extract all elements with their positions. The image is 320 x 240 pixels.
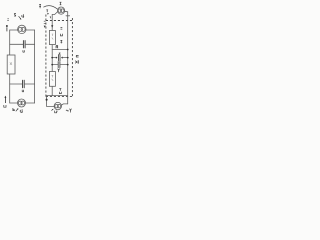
label C2 value (below plates): [22, 90, 24, 92]
arrowhead down dashed edge: [44, 26, 46, 28]
label u1 column mark c: [60, 40, 62, 43]
arrow to source Q1: [19, 16, 22, 19]
current source Q4 (interlocking circles): [54, 102, 61, 109]
wire top link to source Q3: [52, 12, 58, 15]
tick on right rail: [66, 15, 70, 17]
label u (bottom left): [4, 105, 6, 107]
wire bottom (right circuit): [47, 95, 68, 97]
current source Q1 (top, interlocking circles): [18, 25, 26, 33]
junction dot rung3/left: [51, 64, 53, 66]
label R1 value (inside box): [10, 62, 12, 64]
current source Q2 (bottom, interlocking circles): [18, 99, 26, 107]
label C1 value (below plates): [23, 50, 25, 52]
wire bottom loop right link: [61, 104, 67, 105]
label i1 at dashed edge: [44, 21, 46, 23]
wire bottom left segment: [10, 102, 18, 104]
resistor R1 (left circuit box): [7, 55, 15, 74]
wire top left segment: [10, 29, 18, 31]
wire rung 2 right: [62, 57, 68, 59]
arrow left (rung 2 plates): [61, 57, 63, 59]
wire rung B left: [10, 83, 23, 85]
wire left rail (right circuit, mid): [51, 45, 53, 72]
node dot + stem (left edge): [6, 25, 8, 31]
wire rung 1: [52, 49, 67, 51]
wire rung 3 right: [60, 64, 67, 66]
label tilde (bottom right): [66, 109, 69, 112]
label u2 above bottom wire: [59, 89, 61, 94]
capacitor C3 plates (rung 2): [59, 55, 61, 61]
wire bottom right segment: [26, 102, 35, 104]
arrow up (bottom left): [4, 96, 6, 103]
wire from Q3 to right rail: [65, 10, 68, 13]
label i1 (top far left): [39, 4, 41, 8]
current source Q3 (interlocking circles): [58, 7, 65, 14]
junction dot rung2/right: [67, 57, 69, 59]
resistor R3 (lower box, right circuit): [49, 72, 55, 87]
label above Q3: [60, 2, 62, 5]
arrow at Q4 lower left: [52, 109, 54, 111]
wire bottom loop left riser: [46, 96, 48, 107]
label Cb outside right lower: [75, 60, 78, 63]
label R2 value (inside upper box): [52, 34, 53, 39]
resistor R2 (upper box, right circuit): [49, 31, 55, 45]
arrow to source Q2: [16, 108, 19, 111]
capacitor C4 plates (rung 3): [58, 62, 60, 68]
wire top right segment: [26, 29, 35, 31]
dashed box (transducer): [46, 15, 73, 97]
label below C4: [58, 69, 60, 73]
label iq (top left source label): [14, 14, 16, 16]
junction dot rung1/right: [67, 49, 69, 51]
label Cb outside right upper: [76, 55, 79, 57]
label under Q2 left: [13, 108, 15, 111]
wire rung B right: [24, 83, 34, 85]
wire right rail (left circuit): [34, 30, 36, 103]
capacitor C1 plates: [23, 41, 25, 48]
wire rung 3 left: [52, 64, 58, 66]
arrowhead under arc: [47, 13, 49, 15]
arrowhead into R2: [51, 25, 53, 28]
wire left rail (right circuit, top): [51, 15, 53, 31]
label u1 column mark a: [61, 27, 63, 29]
label i1 subscript near rail: [50, 17, 51, 18]
label under Q4 left: [55, 111, 58, 113]
label phi (top, right of arrow): [22, 14, 24, 18]
arrow right (rung 2 plates): [56, 57, 58, 59]
wire left rail lower (left circuit): [9, 74, 11, 103]
wire left rail upper (left circuit): [9, 30, 11, 55]
junction dot rung2/left: [51, 57, 53, 59]
label above C3: [59, 53, 61, 55]
label under arc: [46, 10, 48, 12]
label under Q2 right: [20, 109, 22, 113]
capacitor C2 plates: [23, 80, 25, 87]
wire rung A left: [10, 43, 24, 45]
wire rung 2 left: [52, 57, 56, 59]
junction dot rung3/right: [67, 64, 69, 66]
annotation arc to Q3: [43, 6, 57, 10]
junction dot bottom loop: [46, 99, 48, 101]
wire rung A right: [25, 43, 34, 45]
label u1 column mark b: [61, 34, 63, 36]
label y (bottom right): [70, 109, 72, 113]
wire right rail (right circuit): [67, 12, 69, 104]
label R3 value (inside lower box): [52, 75, 54, 80]
wire left rail (right circuit, bottom): [51, 86, 53, 95]
wire bottom loop to source Q4: [47, 105, 55, 107]
label R above rung1: [56, 46, 58, 49]
label i (left edge): [7, 19, 9, 21]
